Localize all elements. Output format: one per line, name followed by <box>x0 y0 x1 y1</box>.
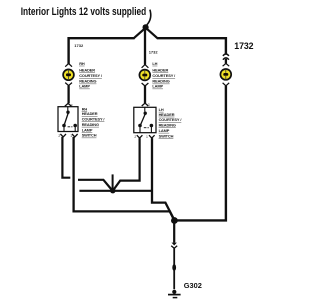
connector male arrow on ground wire <box>172 243 177 246</box>
wire: top bus left horizontal with corner down <box>69 38 135 64</box>
connector female chevron on ground wire <box>171 246 177 249</box>
wire: middle branch vertical from supply node <box>144 30 146 65</box>
svg-text:LAMP: LAMP <box>159 128 170 133</box>
connector chevron below right lamp <box>223 83 230 86</box>
svg-text:RH: RH <box>79 61 85 66</box>
connector chevron above middle lamp <box>142 65 149 68</box>
wire: left lamp to left switch <box>67 86 69 104</box>
svg-text:COURTESY /: COURTESY / <box>79 73 103 78</box>
connector chevron above middle switch <box>142 103 149 106</box>
svg-text:READING: READING <box>82 122 99 127</box>
connector chevron below middle switch pin2 <box>137 135 143 138</box>
wire: left switch pin2 down then right jog <box>62 137 70 178</box>
svg-text:HEADER: HEADER <box>79 68 95 73</box>
wire: middle switch pin2 down, left jog, diagonal to splice <box>114 138 140 189</box>
connector chevron below left lamp <box>65 83 72 86</box>
svg-text:SWITCH: SWITCH <box>159 133 174 138</box>
svg-text:LAMP: LAMP <box>152 84 163 89</box>
svg-text:1732: 1732 <box>74 43 84 48</box>
wire: supply diagonal right <box>147 29 157 38</box>
wire: splice stub from above <box>112 174 114 189</box>
wire: top bus right horizontal with corner down <box>157 38 226 53</box>
leader curve from title to supply node <box>147 10 151 25</box>
wire: right branch between connectors <box>225 59 227 64</box>
svg-text:Interior Lights 12 volts suppl: Interior Lights 12 volts supplied <box>21 6 147 18</box>
wire: splice feeder from left (line A) <box>78 180 112 190</box>
lamp: RH header courtesy/reading lamp <box>63 69 74 80</box>
svg-text:LAMP: LAMP <box>82 127 93 132</box>
wire: splice bus (line B) <box>79 190 151 192</box>
connector chevron below left switch pin1 <box>72 134 78 137</box>
splice dot <box>110 188 115 193</box>
svg-text:HEADER: HEADER <box>159 112 175 117</box>
connector chevron above right lamp <box>223 63 230 66</box>
splice bulge on ground wire <box>172 264 176 271</box>
svg-text:LH: LH <box>152 61 157 66</box>
wire: supply diagonal left <box>134 29 144 38</box>
junction dot <box>171 217 178 224</box>
connector chevron above left lamp <box>65 64 72 67</box>
svg-text:READING: READING <box>159 123 176 128</box>
svg-text:1: 1 <box>146 135 148 139</box>
wire: right branch long vertical down to bottom corner then left to junction <box>177 86 226 221</box>
wire: middle switch pin1 down then bend to junction <box>152 138 174 220</box>
wire: connector to ground <box>173 248 175 289</box>
label: RH HEADER COURTESY / READING LAMP <box>79 61 103 89</box>
svg-text:SWITCH: SWITCH <box>82 133 97 138</box>
svg-text:1732: 1732 <box>149 50 159 55</box>
svg-text:HEADER: HEADER <box>82 111 98 116</box>
svg-text:COURTESY /: COURTESY / <box>82 117 106 122</box>
svg-text:2: 2 <box>134 135 136 139</box>
connector arch 1 right branch <box>223 54 229 56</box>
connector chevron below middle lamp <box>142 83 149 86</box>
supply node dot <box>143 24 149 30</box>
lamp: LH header courtesy/reading lamp <box>139 70 150 81</box>
connector arch 2 right branch <box>223 58 229 60</box>
switch box: RH header courtesy/reading lamp switch <box>58 107 78 132</box>
label: LH HEADER COURTESY / READING LAMP <box>152 61 176 89</box>
label: LH HEADER COURTESY / READING LAMP SWITCH <box>159 107 183 138</box>
svg-text:LAMP: LAMP <box>79 84 90 89</box>
switch box: LH header courtesy/reading lamp switch <box>134 107 156 132</box>
wire: middle lamp to middle switch <box>144 86 146 103</box>
connector chevron below middle switch pin1 <box>149 135 155 138</box>
connector chevron above left switch <box>65 103 72 106</box>
lamp: right courtesy lamp <box>220 69 231 80</box>
svg-text:3: 3 <box>148 103 150 107</box>
label: RH HEADER COURTESY / READING LAMP SWITCH <box>82 106 106 137</box>
connector chevron below left switch pin2 <box>60 134 66 137</box>
wire: junction down to connector <box>173 221 175 243</box>
svg-text:G302: G302 <box>184 281 202 290</box>
svg-text:HEADER: HEADER <box>152 68 168 73</box>
svg-text:COURTESY /: COURTESY / <box>152 73 176 78</box>
svg-text:COURTESY /: COURTESY / <box>159 117 183 122</box>
wire: left switch pin1 long vertical down then right along bottom <box>74 137 174 220</box>
ground G302 symbol <box>168 290 181 298</box>
svg-text:1732: 1732 <box>234 41 253 51</box>
title: Interior Lights 12 volts supplied <box>21 6 147 18</box>
